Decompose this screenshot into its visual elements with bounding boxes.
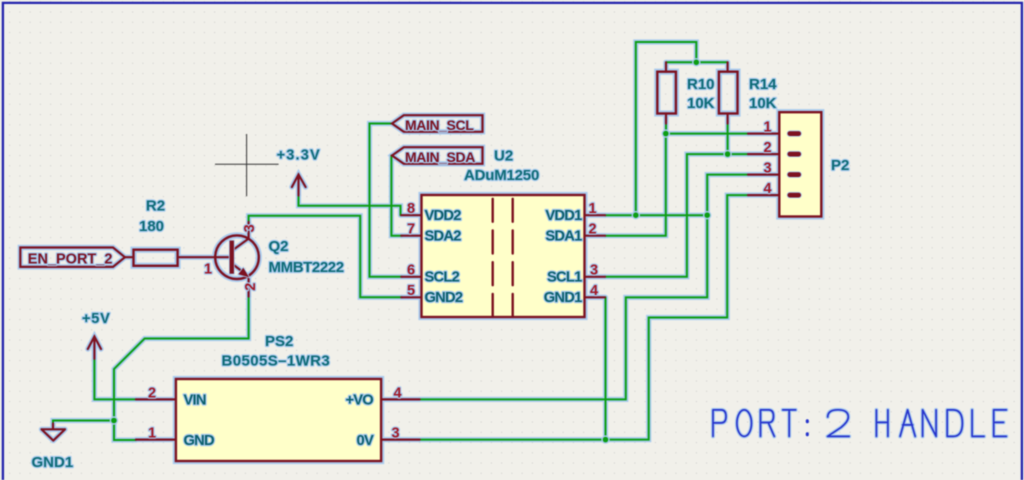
svg-text:SCL1: SCL1 (547, 270, 582, 286)
svg-text:Q2: Q2 (269, 238, 289, 255)
svg-text:EN_PORT_2: EN_PORT_2 (28, 252, 113, 268)
svg-text:GND2: GND2 (425, 290, 463, 306)
svg-text:8: 8 (407, 201, 415, 217)
svg-text:+5V: +5V (82, 311, 111, 327)
svg-text:4: 4 (763, 181, 771, 197)
svg-text:P2: P2 (831, 157, 849, 174)
svg-text:3: 3 (590, 263, 598, 279)
svg-text:1: 1 (588, 201, 596, 217)
svg-text:SDA2: SDA2 (425, 229, 462, 245)
svg-text:7: 7 (407, 222, 415, 238)
svg-text:VDD1: VDD1 (545, 208, 582, 224)
svg-text:6: 6 (407, 263, 415, 279)
svg-text:4: 4 (590, 283, 598, 299)
svg-text:MAIN_SDA: MAIN_SDA (405, 149, 475, 165)
svg-text:MAIN_SCL: MAIN_SCL (405, 117, 474, 133)
svg-text:SDA1: SDA1 (545, 229, 582, 245)
svg-text:+VO: +VO (345, 393, 373, 409)
svg-text:3: 3 (391, 426, 399, 442)
svg-text:2: 2 (763, 140, 771, 156)
svg-text:2: 2 (148, 385, 156, 401)
svg-text:2: 2 (588, 222, 596, 238)
svg-text:GND1: GND1 (544, 290, 582, 306)
svg-text:10K: 10K (687, 95, 715, 112)
svg-text:1: 1 (148, 426, 156, 442)
svg-text:+3.3V: +3.3V (277, 148, 321, 164)
svg-text:4: 4 (393, 385, 401, 401)
svg-text:B0505S–1WR3: B0505S–1WR3 (222, 353, 331, 370)
svg-text:MMBT2222: MMBT2222 (269, 259, 344, 276)
svg-text:SCL2: SCL2 (425, 270, 460, 286)
svg-text:10K: 10K (749, 95, 777, 112)
svg-text:180: 180 (139, 218, 164, 235)
svg-text:R2: R2 (146, 198, 165, 215)
svg-text:R10: R10 (687, 76, 715, 93)
svg-text:VDD2: VDD2 (425, 208, 462, 224)
svg-text:1: 1 (763, 120, 771, 136)
svg-text:GND1: GND1 (32, 454, 74, 471)
svg-text:PS2: PS2 (265, 333, 293, 350)
svg-text:1: 1 (204, 262, 212, 278)
svg-text:3: 3 (763, 161, 771, 177)
svg-text:U2: U2 (494, 148, 513, 165)
svg-text:3: 3 (242, 224, 258, 232)
svg-text:0V: 0V (357, 433, 374, 449)
svg-text:2: 2 (243, 283, 259, 291)
svg-text:ADuM1250: ADuM1250 (464, 167, 539, 184)
svg-text:VIN: VIN (184, 393, 206, 409)
svg-text:GND: GND (184, 433, 215, 449)
svg-text:R14: R14 (749, 76, 777, 93)
svg-text:5: 5 (407, 283, 415, 299)
